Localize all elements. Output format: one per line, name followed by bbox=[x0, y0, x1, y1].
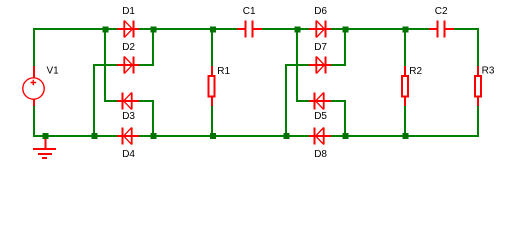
svg-text:D3: D3 bbox=[122, 111, 135, 122]
wire left vertical below V1 bbox=[33, 104, 35, 137]
wire R1 top bbox=[211, 29, 213, 67]
diode D5 bbox=[309, 93, 331, 110]
wire top rail right segment bbox=[453, 28, 479, 30]
capacitor C1 bbox=[237, 21, 262, 38]
label D5 bbox=[314, 111, 327, 122]
diode D2 bbox=[117, 57, 139, 74]
svg-text:C2: C2 bbox=[435, 6, 448, 17]
label D6 bbox=[314, 6, 327, 17]
resistor R2 bbox=[402, 66, 408, 106]
svg-text:R1: R1 bbox=[217, 66, 230, 77]
diode D7 bbox=[309, 57, 331, 74]
wire top rail middle segment bbox=[261, 28, 430, 30]
diode D8 bbox=[309, 128, 331, 145]
wire right vertical above R3 bbox=[477, 28, 479, 67]
wire from bottom rail up to D7 anode bbox=[286, 65, 311, 136]
label D7 bbox=[314, 42, 327, 53]
wire from D7 cathode up to node B2 bbox=[329, 29, 345, 65]
svg-text:R2: R2 bbox=[409, 66, 422, 77]
wire bottom rail bbox=[33, 135, 479, 137]
label R3 bbox=[482, 65, 495, 76]
wire from D2 cathode up to node B bbox=[137, 29, 153, 65]
label V1 bbox=[47, 65, 60, 76]
wire from node A2 down to D5 cathode bbox=[297, 29, 311, 101]
wire R1 bottom bbox=[211, 104, 213, 136]
wire left vertical above V1 bbox=[33, 28, 35, 67]
node R1-bottom junction bbox=[210, 133, 216, 139]
node A2 junction bbox=[294, 26, 300, 32]
capacitor C2 bbox=[429, 21, 454, 38]
label R1 bbox=[217, 66, 230, 77]
svg-text:D1: D1 bbox=[122, 6, 135, 17]
node R1-top junction bbox=[210, 26, 216, 32]
node B junction bbox=[150, 26, 156, 32]
resistor R3 bbox=[475, 66, 481, 106]
resistor R1 bbox=[209, 66, 215, 106]
diode D1 bbox=[117, 21, 139, 38]
wire from D5 anode down to bottom rail bbox=[329, 101, 345, 136]
node ground junction bbox=[42, 133, 48, 139]
svg-text:R3: R3 bbox=[482, 65, 495, 76]
node D2-anode junction bbox=[91, 133, 97, 139]
wire from node A down to D3 cathode bbox=[105, 29, 119, 101]
svg-text:D6: D6 bbox=[314, 6, 327, 17]
label D2 bbox=[122, 42, 135, 53]
label R2 bbox=[409, 66, 422, 77]
wire right vertical below R3 bbox=[477, 104, 479, 137]
voltage source V1 bbox=[23, 66, 44, 106]
wire from D3 anode down to bottom rail bbox=[137, 101, 153, 136]
svg-text:V1: V1 bbox=[47, 65, 60, 76]
node R2-bottom junction bbox=[402, 133, 408, 139]
wire from bottom rail up to D2 anode bbox=[94, 65, 119, 136]
node A junction bbox=[102, 26, 108, 32]
node D3-anode junction bbox=[150, 133, 156, 139]
diode D4 bbox=[117, 128, 139, 145]
svg-text:D2: D2 bbox=[122, 42, 135, 53]
svg-text:D5: D5 bbox=[314, 111, 327, 122]
svg-text:D8: D8 bbox=[314, 149, 327, 160]
svg-text:C1: C1 bbox=[243, 6, 256, 17]
node R2-top junction bbox=[402, 26, 408, 32]
label C1 bbox=[243, 6, 256, 17]
label D1 bbox=[122, 6, 135, 17]
node D5-anode junction bbox=[342, 133, 348, 139]
label D4 bbox=[122, 149, 135, 160]
label D8 bbox=[314, 149, 327, 160]
label C2 bbox=[435, 6, 448, 17]
diode D6 bbox=[309, 21, 331, 38]
wire top rail left segment bbox=[33, 28, 238, 30]
svg-text:D4: D4 bbox=[122, 149, 135, 160]
diode D3 bbox=[117, 93, 139, 110]
label D3 bbox=[122, 111, 135, 122]
svg-text:D7: D7 bbox=[314, 42, 327, 53]
ground bbox=[33, 138, 56, 158]
wire R2 bottom bbox=[404, 104, 406, 136]
wire R2 top bbox=[404, 29, 406, 67]
node D7-anode junction bbox=[283, 133, 289, 139]
node B2 junction bbox=[342, 26, 348, 32]
